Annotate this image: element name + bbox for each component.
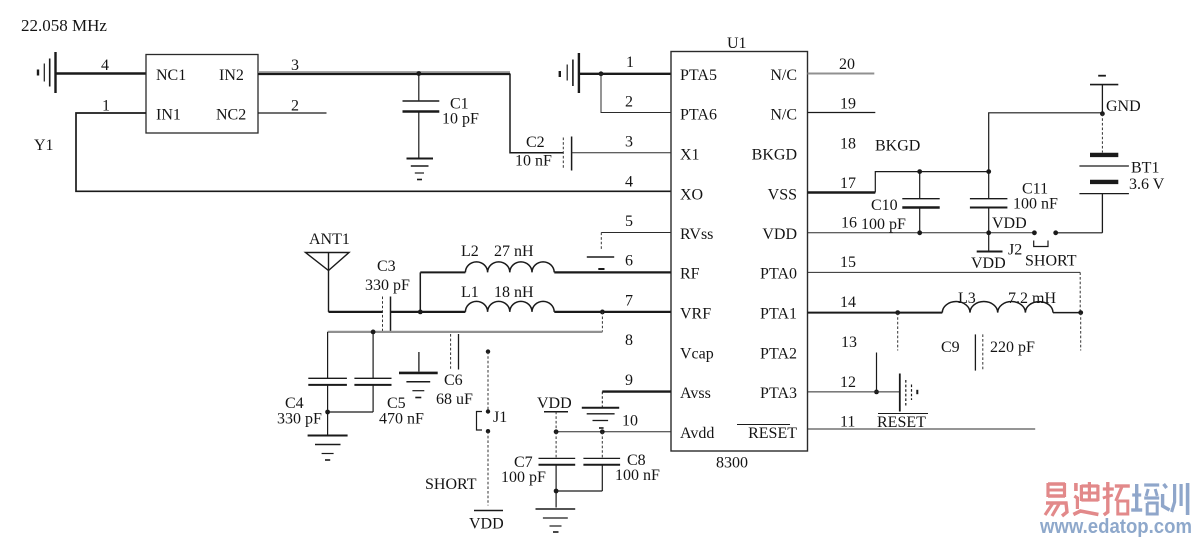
svg-text:C10: C10 — [871, 197, 898, 214]
svg-text:C6: C6 — [444, 372, 463, 389]
svg-text:22.058 MHz: 22.058 MHz — [21, 16, 107, 35]
ground under C4 — [308, 412, 348, 460]
svg-text:BT1: BT1 — [1131, 160, 1159, 177]
svg-text:PTA0: PTA0 — [760, 266, 797, 283]
wire gray bus — [328, 331, 603, 333]
svg-text:C3: C3 — [377, 258, 396, 275]
svg-text:XO: XO — [680, 187, 703, 204]
svg-text:J1: J1 — [493, 409, 507, 426]
svg-text:18 nH: 18 nH — [494, 284, 534, 301]
IC U1 box — [671, 52, 808, 452]
svg-text:PTA5: PTA5 — [680, 67, 717, 84]
svg-text:RESET: RESET — [748, 425, 797, 442]
svg-text:RESET: RESET — [877, 414, 926, 431]
svg-text:VRF: VRF — [680, 306, 711, 323]
ground mid (floating below VRF junction) — [399, 352, 438, 398]
svg-text:10 nF: 10 nF — [515, 153, 552, 170]
svg-text:13: 13 — [841, 334, 857, 351]
svg-text:68 uF: 68 uF — [436, 391, 473, 408]
svg-text:IN2: IN2 — [219, 67, 244, 84]
svg-text:3: 3 — [625, 134, 633, 151]
wire L2 to RF pin 6 — [554, 271, 671, 273]
wire PTA0 pin 15 — [808, 271, 1081, 273]
svg-text:330 pF: 330 pF — [277, 411, 322, 428]
svg-text:VDD: VDD — [469, 516, 504, 533]
power VDD below rail — [988, 233, 990, 251]
watermark — [1045, 482, 1188, 516]
svg-text:18: 18 — [840, 136, 856, 153]
svg-text:N/C: N/C — [770, 67, 797, 84]
svg-text:9: 9 — [625, 372, 633, 389]
svg-text:330 pF: 330 pF — [365, 277, 410, 294]
svg-text:C4: C4 — [285, 395, 304, 412]
svg-text:6: 6 — [625, 253, 633, 270]
wire PTA1 pin 14 — [808, 312, 943, 314]
svg-text:VDD: VDD — [971, 255, 1006, 272]
svg-text:14: 14 — [840, 294, 856, 311]
svg-text:8: 8 — [625, 332, 633, 349]
svg-text:100 pF: 100 pF — [501, 469, 546, 486]
wire pin4 ground to Y1 — [56, 72, 147, 74]
svg-text:PTA6: PTA6 — [680, 107, 717, 124]
svg-text:VDD: VDD — [762, 226, 797, 243]
wire VDD rail pin 16 — [808, 232, 1035, 234]
svg-text:8300: 8300 — [716, 455, 748, 472]
node junction L2 riser — [418, 310, 423, 315]
node junction GND — [1101, 85, 1103, 114]
wire C3 to L1 — [391, 311, 466, 313]
wire C8 bottom to C7 bottom — [556, 490, 602, 492]
wire Avdd pin 10 — [556, 431, 671, 433]
wire down to C2 — [510, 74, 563, 153]
svg-text:100 nF: 100 nF — [615, 467, 660, 484]
svg-text:12: 12 — [840, 374, 856, 391]
svg-text:5: 5 — [625, 213, 633, 230]
svg-text:Avss: Avss — [680, 385, 711, 402]
wire VSS pin 17 — [808, 191, 876, 193]
node junction — [325, 410, 330, 415]
node junction C1 tap — [416, 71, 421, 76]
ground rotated at pin 12 — [900, 374, 918, 412]
svg-text:3.6 V: 3.6 V — [1129, 176, 1165, 193]
ground at RVss pin 5 — [601, 232, 671, 234]
svg-text:www.edatop.com: www.edatop.com — [1039, 516, 1192, 538]
wire pin 13 stub — [876, 353, 878, 392]
svg-text:2: 2 — [291, 98, 299, 115]
wire PTA3 pin 12 — [808, 391, 900, 393]
svg-text:C9: C9 — [941, 339, 960, 356]
svg-text:IN1: IN1 — [156, 107, 181, 124]
node junction bus tap — [600, 310, 605, 315]
wire N/C pin 19 — [808, 112, 876, 114]
svg-text:VDD: VDD — [992, 215, 1027, 232]
svg-text:4: 4 — [101, 57, 109, 74]
svg-text:ANT1: ANT1 — [309, 231, 350, 248]
svg-text:470 nF: 470 nF — [379, 411, 424, 428]
wire RESET pin 11 — [808, 428, 1036, 430]
node junction C5 tap — [371, 330, 376, 335]
svg-text:VSS: VSS — [768, 187, 797, 204]
svg-text:VDD: VDD — [537, 395, 572, 412]
svg-text:X1: X1 — [680, 147, 700, 164]
svg-text:Vcap: Vcap — [680, 346, 714, 363]
svg-text:U1: U1 — [727, 35, 747, 52]
svg-text:10: 10 — [622, 413, 638, 430]
svg-text:17: 17 — [840, 175, 856, 192]
wire L1 to VRF pin 7 — [554, 311, 671, 313]
svg-text:16: 16 — [841, 215, 857, 232]
svg-text:100 nF: 100 nF — [1013, 196, 1058, 213]
svg-text:N/C: N/C — [770, 107, 797, 124]
ground under C1 — [407, 159, 434, 180]
jumper J2 — [1032, 230, 1037, 235]
svg-text:PTA3: PTA3 — [760, 385, 797, 402]
wire to PTA6 pin 2 — [601, 74, 671, 113]
svg-text:1: 1 — [626, 54, 634, 71]
svg-text:L1: L1 — [461, 284, 479, 301]
ground at Y1 pin 4 — [38, 52, 56, 93]
svg-text:PTA1: PTA1 — [760, 306, 797, 323]
svg-text:L3: L3 — [958, 290, 976, 307]
svg-text:NC1: NC1 — [156, 67, 186, 84]
svg-text:BKGD: BKGD — [752, 147, 797, 164]
power VDD below J1 — [474, 510, 503, 512]
svg-text:Y1: Y1 — [34, 137, 54, 154]
svg-text:7: 7 — [625, 293, 633, 310]
jumper J1 — [486, 349, 490, 353]
wire Y1 IN2 output — [258, 71, 510, 73]
wire ground to PTA5 pin 1 — [579, 73, 671, 75]
wire Y1 IN1 to XO (pin 4 of U1) — [76, 113, 671, 191]
svg-text:SHORT: SHORT — [425, 476, 477, 493]
svg-text:C2: C2 — [526, 134, 545, 151]
svg-text:10 pF: 10 pF — [442, 111, 479, 128]
svg-text:2: 2 — [625, 94, 633, 111]
svg-text:4: 4 — [625, 174, 633, 191]
ground at Avss pin 9 — [602, 390, 671, 392]
svg-text:RVss: RVss — [680, 226, 713, 243]
svg-text:BKGD: BKGD — [875, 138, 920, 155]
svg-text:20: 20 — [839, 56, 855, 73]
svg-text:1: 1 — [102, 98, 110, 115]
crystal Y1 box — [146, 55, 258, 134]
svg-text:27 nH: 27 nH — [494, 243, 534, 260]
ground under C7 — [536, 491, 576, 532]
svg-text:11: 11 — [840, 414, 855, 431]
wire C5 bottom to C4 bottom — [328, 411, 374, 413]
wire VRF line (antenna to C3) — [329, 311, 383, 313]
wire N/C pin 20 — [808, 73, 875, 75]
ground at U1 pin 1 — [560, 53, 579, 93]
svg-text:Avdd: Avdd — [680, 425, 714, 442]
svg-text:15: 15 — [840, 254, 856, 271]
svg-text:C5: C5 — [387, 395, 406, 412]
wire bus left drop to C4 — [327, 332, 329, 378]
node junction PTA6 tap — [599, 71, 604, 76]
wire NC2 stub — [258, 112, 327, 114]
svg-text:NC2: NC2 — [216, 107, 246, 124]
svg-text:220 pF: 220 pF — [990, 339, 1035, 356]
ground GND above battery — [1098, 75, 1106, 77]
capacitor C1 — [418, 74, 420, 101]
svg-text:L2: L2 — [461, 243, 479, 260]
svg-text:GND: GND — [1106, 98, 1141, 115]
svg-text:RF: RF — [680, 266, 700, 283]
svg-text:J2: J2 — [1008, 242, 1022, 259]
svg-text:19: 19 — [840, 96, 856, 113]
svg-text:PTA2: PTA2 — [760, 346, 797, 363]
svg-text:100 pF: 100 pF — [861, 216, 906, 233]
svg-text:SHORT: SHORT — [1025, 253, 1077, 270]
